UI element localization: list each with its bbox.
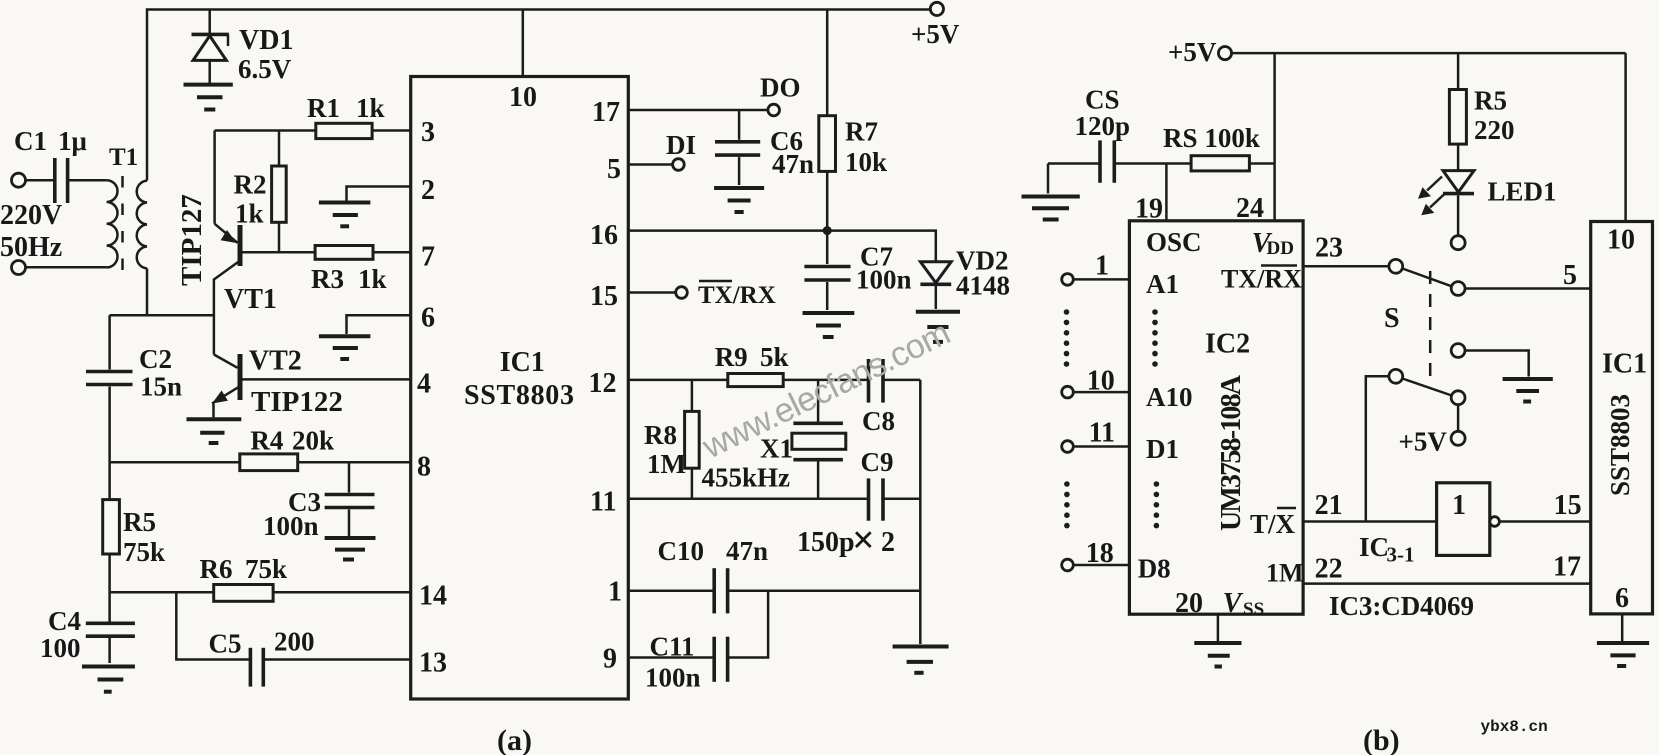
- svg-text:C11: C11: [650, 632, 695, 662]
- wire: right ground bus: [919, 380, 922, 644]
- svg-text:100k: 100k: [1204, 123, 1260, 153]
- ground below VT2 emitter: [187, 419, 242, 443]
- ground below C3: [325, 538, 376, 560]
- terminal: AC input top: [12, 173, 26, 187]
- svg-text:100n: 100n: [645, 663, 701, 693]
- wire: +5V rail (b): [1232, 52, 1626, 55]
- terminal: AC input bottom: [12, 261, 26, 275]
- svg-text:SST8803: SST8803: [464, 380, 574, 411]
- svg-text:10: 10: [1087, 366, 1115, 397]
- terminal TX/RX (a): [676, 287, 688, 299]
- svg-text:C1: C1: [14, 126, 47, 156]
- zener diode VD1 6.5V: [192, 25, 294, 84]
- svg-text:7: 7: [421, 242, 435, 273]
- svg-text:6: 6: [421, 303, 435, 334]
- resistor R3 1k: [311, 246, 411, 295]
- svg-text:18: 18: [1086, 538, 1114, 569]
- svg-text:455kHz: 455kHz: [702, 463, 791, 493]
- wire: VT1 collector node down to VT2 base: [213, 279, 216, 355]
- terminal DO: [768, 104, 780, 116]
- wire: pin 19 stub: [1165, 164, 1168, 221]
- LED LED1: [1418, 171, 1557, 236]
- resistor R6 75k: [110, 554, 411, 601]
- svg-text:1k: 1k: [358, 264, 387, 294]
- svg-text:+5V: +5V: [1399, 427, 1448, 457]
- svg-text:1k: 1k: [235, 198, 264, 228]
- svg-text:IC1: IC1: [1602, 349, 1647, 380]
- ground: right bus: [893, 647, 949, 673]
- svg-text:VT2: VT2: [249, 346, 302, 377]
- svg-text:A10: A10: [1146, 382, 1193, 412]
- capacitor C7 100n: [804, 231, 911, 310]
- transistor VT1 TIP127: [214, 131, 315, 316]
- wire inverter output to IC1 pin 15: [1499, 520, 1590, 523]
- wire: C5 branch: [176, 592, 250, 659]
- svg-text:120p: 120p: [1075, 111, 1131, 141]
- svg-text:200: 200: [274, 627, 315, 657]
- svg-text:SS: SS: [1243, 599, 1264, 620]
- svg-text:8: 8: [417, 452, 431, 483]
- svg-text:+5V: +5V: [911, 19, 960, 49]
- svg-text:9: 9: [603, 644, 617, 675]
- svg-text:4148: 4148: [956, 271, 1010, 301]
- wire pin 21 to inverter: [1303, 520, 1437, 523]
- svg-text:1: 1: [1095, 251, 1109, 282]
- svg-text:VT1: VT1: [224, 284, 277, 315]
- svg-text:OSC: OSC: [1146, 227, 1202, 257]
- capacitor C9 150p: [628, 447, 920, 521]
- svg-text:17: 17: [1553, 552, 1581, 583]
- svg-text:DD: DD: [1267, 238, 1294, 259]
- wire pin 18: [1073, 564, 1129, 567]
- svg-text:2: 2: [421, 175, 435, 206]
- svg-text:1k: 1k: [356, 93, 385, 123]
- svg-text:14: 14: [419, 581, 447, 612]
- svg-text:50Hz: 50Hz: [0, 232, 62, 263]
- svg-text:15: 15: [590, 281, 618, 312]
- resistor R9 5k: [628, 342, 867, 387]
- svg-text:SST8803: SST8803: [1605, 394, 1635, 496]
- svg-text:R6: R6: [200, 554, 233, 584]
- svg-text:R1: R1: [307, 93, 340, 123]
- pin labels IC1 right: [589, 97, 623, 675]
- svg-text:75k: 75k: [245, 554, 287, 584]
- svg-text:5: 5: [607, 154, 621, 185]
- switch gang dashed link: [1429, 271, 1432, 382]
- svg-text:21: 21: [1315, 490, 1343, 521]
- svg-text:C2: C2: [139, 344, 172, 374]
- svg-text:4: 4: [417, 369, 431, 400]
- svg-text:6: 6: [1615, 583, 1629, 614]
- ground below VD2: [916, 312, 960, 342]
- svg-text:CS: CS: [1085, 85, 1120, 115]
- wire pin 22 to IC1 pin 17: [1303, 582, 1591, 585]
- capacitor CS 120p: [1048, 85, 1191, 183]
- pin labels IC1 left: [417, 117, 447, 679]
- svg-text:6.5V: 6.5V: [238, 54, 292, 84]
- capacitor C5 200: [209, 627, 411, 687]
- node dots D column outer: [1064, 481, 1070, 528]
- svg-text:150p: 150p: [797, 527, 855, 558]
- ground below IC2 pin 20: [1194, 614, 1241, 666]
- svg-text:100n: 100n: [263, 511, 319, 541]
- wire pin17 to DO: [628, 109, 768, 112]
- svg-text:15n: 15n: [140, 372, 182, 402]
- switch S section 2 pole: [1389, 369, 1403, 383]
- svg-text:2: 2: [881, 527, 895, 558]
- IC U3 IC1 SST8803 (b): [1591, 222, 1653, 615]
- svg-text:5: 5: [1563, 260, 1577, 291]
- ground below IC1 (b): [1597, 614, 1649, 666]
- svg-text:16: 16: [590, 220, 618, 251]
- svg-text:R7: R7: [845, 117, 878, 147]
- node dots A column inner: [1152, 309, 1158, 367]
- node: rail drop to VD1: [208, 10, 211, 35]
- svg-text:3: 3: [421, 117, 435, 148]
- wire pin 23 to switch: [1303, 265, 1389, 268]
- wire: CS to ground: [1047, 164, 1050, 194]
- svg-text:+5V: +5V: [1168, 37, 1217, 67]
- svg-text:(a): (a): [497, 724, 532, 755]
- wire: [26, 179, 54, 182]
- svg-text:20: 20: [1175, 588, 1203, 619]
- svg-text:13: 13: [419, 648, 447, 679]
- svg-text:1M: 1M: [1266, 559, 1304, 588]
- svg-text:47n: 47n: [772, 149, 814, 179]
- ground at pin 2: [319, 203, 371, 227]
- switch S section 2 throw: [1451, 391, 1465, 405]
- svg-text:T/X: T/X: [1250, 509, 1296, 539]
- switch S section 2 lever: [1402, 379, 1451, 396]
- wire: secondary to collector node: [146, 268, 149, 315]
- svg-text:100n: 100n: [856, 265, 912, 295]
- capacitor C11 100n: [628, 591, 768, 693]
- resistor R8 1M: [644, 380, 699, 499]
- terminal pin 11: [1062, 441, 1074, 453]
- svg-text:S: S: [1384, 303, 1400, 334]
- svg-text:(b): (b): [1363, 724, 1400, 755]
- svg-text:V: V: [1223, 588, 1244, 619]
- resistor R2 1k: [234, 131, 287, 253]
- label TX/RX (b): [1221, 265, 1302, 294]
- ground at switch contact: [1503, 379, 1553, 402]
- wire pin 11: [1073, 445, 1129, 448]
- svg-text:C9: C9: [861, 447, 894, 477]
- junction node: [823, 226, 832, 235]
- svg-text:75k: 75k: [123, 537, 165, 567]
- transistor VT2 TIP122: [212, 346, 411, 419]
- svg-text:LED1: LED1: [1488, 177, 1557, 207]
- switch S section 1 lever: [1402, 269, 1451, 287]
- wire: pole to inverter input net: [1366, 376, 1389, 521]
- resistor R1 1k: [215, 93, 411, 139]
- svg-text:R8: R8: [644, 420, 677, 450]
- wire: pin6 to ground: [347, 315, 411, 334]
- svg-text:100: 100: [40, 633, 81, 663]
- capacitor C6 47n: [715, 110, 814, 185]
- wire: down to C2: [108, 315, 111, 369]
- svg-text:10: 10: [509, 82, 537, 113]
- svg-text:R4: R4: [250, 425, 283, 455]
- svg-text:IC: IC: [1359, 532, 1389, 562]
- svg-text:TIP127: TIP127: [176, 194, 208, 286]
- terminal +5V (switch): [1451, 431, 1465, 445]
- resistor RS 100k: [1163, 123, 1275, 171]
- svg-text:TX/RX: TX/RX: [1221, 265, 1302, 294]
- crystal X1 455kHz: [702, 380, 846, 499]
- capacitor C1 1u: [14, 126, 87, 203]
- transformer T1: [107, 144, 147, 272]
- svg-text:VD1: VD1: [239, 25, 293, 56]
- wire pin16 to VD2: [628, 231, 936, 262]
- svg-text:11: 11: [1089, 418, 1115, 449]
- node dots A column outer: [1064, 309, 1070, 367]
- wire to IC1 pin 5: [1465, 287, 1591, 290]
- IC U2 IC2 UM3758-108A: [1129, 221, 1303, 620]
- IC U1 IC1 SST8803: [411, 10, 629, 700]
- svg-text:ybx8.cn: ybx8.cn: [1481, 718, 1548, 736]
- svg-text:11: 11: [590, 487, 616, 518]
- wire: [26, 266, 107, 269]
- resistor R5 75k: [103, 500, 165, 622]
- svg-text:47n: 47n: [726, 536, 768, 566]
- wire pin5 to DI: [628, 163, 672, 166]
- svg-text:17: 17: [592, 97, 620, 128]
- svg-text:1μ: 1μ: [58, 126, 87, 156]
- svg-text:DI: DI: [666, 130, 696, 160]
- svg-text:1M: 1M: [647, 449, 686, 479]
- svg-text:22: 22: [1315, 554, 1343, 585]
- wire pin 10: [1073, 391, 1129, 394]
- wire: top +5V rail: [147, 10, 930, 181]
- svg-text:R5: R5: [1474, 86, 1507, 116]
- resistor R7 10k: [819, 10, 887, 231]
- svg-text:23: 23: [1315, 233, 1343, 264]
- wire throw to +5V terminal: [1457, 405, 1460, 432]
- terminal pin 18: [1062, 559, 1074, 571]
- svg-text:A1: A1: [1146, 269, 1179, 299]
- svg-text:20k: 20k: [292, 425, 334, 455]
- svg-text:1: 1: [1452, 490, 1466, 521]
- svg-text:220V: 220V: [0, 200, 62, 231]
- svg-text:D8: D8: [1138, 554, 1171, 584]
- ground at CS: [1022, 197, 1080, 220]
- wire: rail to VDD pin 24: [1273, 53, 1276, 221]
- svg-text:C8: C8: [862, 406, 895, 436]
- svg-text:10: 10: [1607, 225, 1635, 256]
- svg-text:220: 220: [1474, 115, 1515, 145]
- resistor R4 20k: [110, 425, 411, 470]
- ground below C4: [82, 667, 135, 692]
- wire: rail to IC1 pin 10: [1624, 53, 1627, 221]
- svg-text:UM3758-108A: UM3758-108A: [1216, 374, 1247, 531]
- svg-text:TX/RX: TX/RX: [698, 282, 776, 309]
- svg-text:DO: DO: [760, 73, 801, 103]
- svg-text:3-1: 3-1: [1387, 543, 1415, 567]
- svg-text:RS: RS: [1163, 123, 1198, 153]
- node dots D column inner: [1154, 481, 1160, 528]
- svg-text:IC2: IC2: [1205, 329, 1250, 360]
- wire: C2 to R4 node to R5: [108, 387, 111, 500]
- svg-text:C4: C4: [48, 606, 81, 636]
- svg-text:15: 15: [1554, 490, 1582, 521]
- svg-text:T1: T1: [109, 144, 138, 171]
- terminal DI: [673, 159, 685, 171]
- switch S section 1 throw: [1451, 282, 1465, 296]
- svg-text:×: ×: [852, 517, 875, 562]
- switch contact to ground: [1451, 344, 1465, 358]
- capacitor C4 100: [40, 606, 135, 663]
- svg-text:C10: C10: [658, 536, 705, 566]
- wire pin 1: [1073, 278, 1129, 281]
- svg-text:C5: C5: [209, 629, 242, 659]
- ground below VD1: [184, 85, 233, 110]
- svg-text:R5: R5: [123, 507, 156, 537]
- ground at pin 6: [319, 336, 371, 359]
- svg-text:R9: R9: [715, 342, 748, 372]
- svg-text:12: 12: [589, 368, 617, 399]
- svg-text:R3: R3: [311, 264, 344, 294]
- svg-text:10k: 10k: [845, 147, 887, 177]
- svg-text:D1: D1: [1146, 434, 1179, 464]
- svg-text:1: 1: [608, 577, 622, 608]
- svg-text:R2: R2: [234, 169, 267, 199]
- capacitor C10 47n: [628, 536, 920, 613]
- terminal +5V (b): [1218, 47, 1231, 60]
- capacitor C2 15n: [86, 344, 182, 402]
- wire: pin2 to ground: [347, 187, 411, 201]
- inverter IC3-1: [1437, 483, 1500, 556]
- label IC3-1: [1359, 532, 1415, 567]
- wire: [110, 314, 214, 317]
- terminal below LED1: [1451, 236, 1465, 250]
- switch S section 1 pole: [1389, 259, 1403, 273]
- svg-text:TIP122: TIP122: [251, 386, 343, 418]
- svg-text:IC3:CD4069: IC3:CD4069: [1329, 591, 1474, 621]
- capacitor C8 150p: [862, 359, 920, 436]
- capacitor C3 100n: [263, 462, 375, 541]
- wire: [68, 179, 107, 182]
- terminal pin 10: [1062, 386, 1074, 398]
- wire contact to ground: [1465, 351, 1529, 377]
- svg-text:5k: 5k: [760, 342, 789, 372]
- diode VD2 4148: [920, 246, 1010, 310]
- terminal pin 1: [1062, 274, 1074, 286]
- ground below C6: [714, 188, 764, 212]
- svg-text:IC1: IC1: [500, 347, 545, 378]
- resistor R5 220 (b): [1449, 53, 1514, 171]
- wire pin15 to TX/RX: [628, 291, 675, 294]
- ground below C7: [803, 313, 855, 337]
- terminal +5V (a): [930, 2, 943, 15]
